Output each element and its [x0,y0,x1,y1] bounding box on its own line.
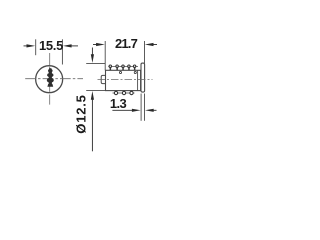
side view: top pin 3 [122,65,124,70]
side view: bottom pin 3 [130,91,133,95]
side view: inner ring 2 [134,71,136,73]
side view: top pin wire [108,65,138,67]
side view: top pin 2 [116,65,118,70]
side view: top pin 1 [109,65,111,70]
dim 21.7: right extension line [144,41,146,63]
svg-text:21.7: 21.7 [115,36,138,51]
side view: cam protrusion left [101,75,105,83]
keyhole (keyway profile) [47,68,54,87]
svg-text:Ø12.5: Ø12.5 [74,94,89,133]
dim 21.7: left extension line [104,41,106,70]
dim O12.5: top extension line [86,62,105,64]
side view: top pin 5 [133,65,135,70]
side view: bottom pin 2 [122,91,125,95]
dim 21.7: left arrow [93,44,98,46]
dim 15.5: left arrow [24,45,29,47]
dim 15.5: left extension line [35,39,37,55]
dim O12.5: bottom extension line [86,90,105,92]
side view: body [106,70,141,90]
side view: inner line before flange [137,70,139,90]
dim 15.5: right extension line [61,39,63,64]
front view vertical centerline [49,53,51,105]
dim 1.3: leader line with right-pointing arrow [112,109,133,111]
svg-text:1.3: 1.3 [110,96,127,111]
svg-text:15.5: 15.5 [39,38,63,53]
front view: cylinder face circle [36,66,63,93]
dim O12.5: bottom arrow (up) with long line [91,98,93,152]
dim 15.5: right arrow [71,45,79,47]
dim O12.5: top arrow (down) [91,48,93,57]
dim 1.3: right arrow [152,109,157,111]
side view: bottom pin 1 [114,91,117,95]
side view: bottom pin wire [113,92,135,94]
side view: top pin 4 [128,65,130,70]
dim 1.3: left extension line [140,94,142,121]
side view: inner ring 1 [119,71,121,73]
front view horizontal centerline [25,78,83,80]
side view: horizontal centerline [98,78,153,80]
dim 1.3: right extension line [144,94,146,121]
dim 21.7: right arrow [153,44,158,46]
side view: flange (head disc) [141,63,145,92]
